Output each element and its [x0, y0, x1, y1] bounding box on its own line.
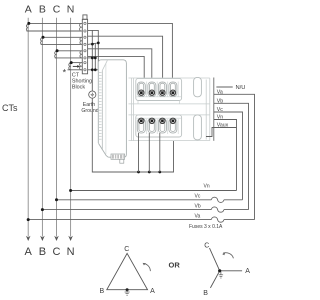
fuse F3 [211, 197, 224, 202]
CT A winding curl [26, 24, 28, 31]
lower terminal T1 [137, 118, 145, 133]
wire phase A vertical [27, 18, 29, 237]
CT C coil at block [80, 51, 82, 58]
wire CT B+ to meter terminal 3 [88, 36, 163, 90]
svg-text:Fuses 3 x 0.1A: Fuses 3 x 0.1A [189, 224, 223, 230]
CT B secondary pair wires [41, 37, 83, 44]
svg-text:C: C [53, 3, 61, 15]
lower terminal screws [139, 118, 176, 123]
svg-text:B: B [39, 246, 46, 258]
svg-text:Ground: Ground [81, 108, 98, 114]
label N/U with leader [216, 86, 232, 88]
svg-text:B: B [100, 288, 105, 295]
svg-text:A: A [25, 3, 32, 15]
wire CT A+ to meter terminal 4 [88, 23, 173, 90]
CT N coil at block [80, 63, 83, 70]
wire CT B return [88, 43, 99, 45]
wire CT C+ to meter terminal 2 [88, 49, 152, 91]
svg-text:N: N [67, 3, 75, 15]
junction dots return C [91, 57, 94, 60]
lower strip inter-terminal slots [147, 119, 179, 134]
lower terminal strip base [136, 115, 182, 137]
upper terminal strip base [136, 78, 182, 100]
earth ground symbol [89, 91, 96, 98]
wire phase C vertical [56, 18, 58, 237]
svg-text:C: C [53, 246, 61, 258]
wye ground symbol [219, 272, 223, 278]
svg-text:C: C [124, 246, 129, 253]
CT N winding curl [69, 63, 71, 70]
meter body front-left edge [101, 70, 103, 150]
wire Va lead [214, 94, 255, 219]
wire neutral tap [71, 190, 237, 192]
CT C secondary pair wires [55, 51, 83, 58]
wire CT A return [88, 30, 99, 69]
meter DIN rail ticks [99, 73, 102, 140]
arrowhead phase N [68, 236, 73, 241]
wire phase B vertical [41, 18, 43, 237]
svg-text:Vb: Vb [217, 98, 223, 104]
delta rotation arc [144, 263, 151, 271]
wire Vn lead [214, 120, 237, 191]
wire CT N+ to meter terminal 1 [88, 56, 145, 90]
junction dot C tap [55, 198, 58, 201]
wire CT A return branch to ground [91, 30, 93, 91]
wire CT C return [88, 57, 96, 59]
wire Vaux lead [206, 128, 237, 137]
arrowhead phase A [26, 236, 31, 241]
lower terminal T4 [169, 118, 177, 133]
meter body corner chamfer bottom [98, 143, 108, 157]
lower terminal T2 [148, 118, 156, 133]
meter body outline [98, 60, 126, 157]
svg-text:OR: OR [169, 260, 181, 269]
upper terminal T4 [169, 82, 177, 97]
svg-text:Vn: Vn [204, 183, 210, 189]
upper terminal T2 [148, 82, 156, 97]
fuse F2 [211, 207, 224, 212]
fuse F1 [211, 217, 224, 222]
CT B junction dot [42, 36, 45, 39]
CT C winding curl [55, 51, 57, 58]
delta ground node dot [126, 288, 129, 291]
wye center dot [218, 269, 221, 272]
wire earth to return bus [92, 98, 173, 172]
svg-text:A: A [150, 288, 155, 295]
svg-text:N/U: N/U [236, 85, 246, 91]
CT shorting block body [82, 19, 87, 74]
svg-text:Va: Va [195, 213, 201, 219]
delta ground symbol [125, 290, 130, 296]
svg-text:N: N [67, 246, 75, 258]
CT shorting block top cap [83, 15, 87, 19]
svg-text:Vc: Vc [195, 194, 201, 200]
svg-text:B: B [203, 290, 208, 297]
arrowhead phase B [40, 236, 45, 241]
meter body corner chamfer top [102, 60, 107, 70]
svg-text:C: C [204, 242, 209, 249]
upper terminal T1 [137, 82, 145, 97]
CT N (4th CT) wires [68, 63, 83, 70]
wire Vc lead [214, 112, 243, 200]
CT B coil at block [80, 37, 82, 44]
svg-text:B: B [39, 3, 46, 15]
upper terminal T3 [158, 82, 166, 97]
meter connector foot [120, 159, 124, 163]
upper strip inter-terminal slots [147, 82, 179, 97]
wire Vb lead [214, 103, 249, 209]
svg-text:A: A [25, 246, 33, 258]
lower terminal T3 [158, 118, 166, 133]
meter mounting plate [129, 78, 210, 141]
CT A secondary pair wires [27, 23, 83, 31]
annotation arrow for 4th CT [73, 65, 78, 67]
svg-text:Block: Block [72, 84, 85, 90]
upper terminal screws [139, 90, 176, 95]
CT N junction dot [70, 61, 73, 64]
junction dots return B [91, 43, 94, 46]
delta symbol triangle [107, 253, 148, 289]
meter assembly right edge [213, 78, 215, 141]
svg-text:*: * [63, 68, 67, 78]
junction dot B tap [41, 208, 44, 211]
meter barcode label [111, 154, 125, 159]
wires lower terminals to return bus [139, 133, 160, 172]
CT shorting block terminals [84, 22, 86, 71]
meter chassis slot upper [194, 77, 202, 96]
svg-text:Vc: Vc [217, 107, 223, 113]
wye rotation arc [223, 253, 233, 259]
meter body inner contour [105, 64, 107, 155]
wire B tap with fuse F2 [42, 209, 211, 211]
svg-text:Vb: Vb [195, 203, 201, 209]
svg-text:A: A [245, 268, 250, 275]
svg-text:Va: Va [217, 89, 223, 95]
wire C tap with fuse F3 [57, 199, 212, 201]
wye symbol branches [210, 248, 243, 288]
svg-text:Vaux: Vaux [217, 123, 229, 129]
wire phase N vertical [70, 18, 72, 237]
junction dots return N [91, 68, 94, 71]
svg-text:CTs: CTs [2, 103, 18, 113]
meter chassis slot lower [194, 115, 202, 140]
CT A junction dot [27, 22, 30, 25]
CT C junction dot [56, 49, 59, 52]
svg-text:Vn: Vn [217, 115, 223, 121]
wire A tap with fuse F1 [28, 219, 211, 221]
arrowhead phase C [54, 236, 59, 241]
CT B winding curl [41, 38, 43, 45]
junction dot neutral tap [69, 189, 72, 192]
wire CT N return [88, 69, 99, 71]
junction dot A tap [27, 218, 30, 221]
CT A coil at block [79, 23, 82, 31]
junction dots on return bus [137, 171, 140, 174]
